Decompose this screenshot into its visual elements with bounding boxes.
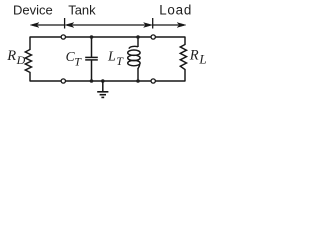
- ground: [97, 81, 108, 97]
- wire bottom: [30, 80, 185, 82]
- dimension tick right: [152, 18, 154, 29]
- dimension tick left: [64, 18, 66, 29]
- svg-text:Device: Device: [13, 3, 53, 18]
- svg-text:L: L: [107, 50, 116, 65]
- dimension arrow Device (points left): [30, 23, 64, 28]
- terminal circle bottom-right: [151, 79, 155, 83]
- svg-text:Load: Load: [159, 3, 192, 18]
- dimension arrow Tank (double headed between ticks): [65, 23, 152, 28]
- resistor R_L: [180, 37, 186, 82]
- svg-text:Tank: Tank: [68, 3, 96, 18]
- dimension arrow Load (points right): [153, 23, 186, 28]
- svg-text:T: T: [74, 55, 82, 69]
- junction dot ground tap: [101, 79, 105, 83]
- junction dot bottom L_T: [136, 79, 140, 83]
- resistor R_D: [25, 37, 31, 82]
- inductor L_T: [128, 37, 140, 82]
- terminal circle top-right: [151, 35, 155, 39]
- svg-text:R: R: [189, 47, 199, 63]
- wire top: [30, 36, 185, 38]
- terminal circle bottom-left: [61, 79, 65, 83]
- junction dot top C_T: [90, 35, 94, 39]
- junction dot top L_T: [136, 35, 140, 39]
- capacitor C_T: [85, 37, 98, 82]
- svg-text:D: D: [16, 53, 26, 67]
- svg-text:L: L: [198, 52, 206, 67]
- junction dot bottom C_T: [90, 79, 94, 83]
- svg-text:T: T: [116, 54, 124, 68]
- terminal circle top-left: [61, 35, 65, 39]
- svg-text:R: R: [6, 48, 16, 64]
